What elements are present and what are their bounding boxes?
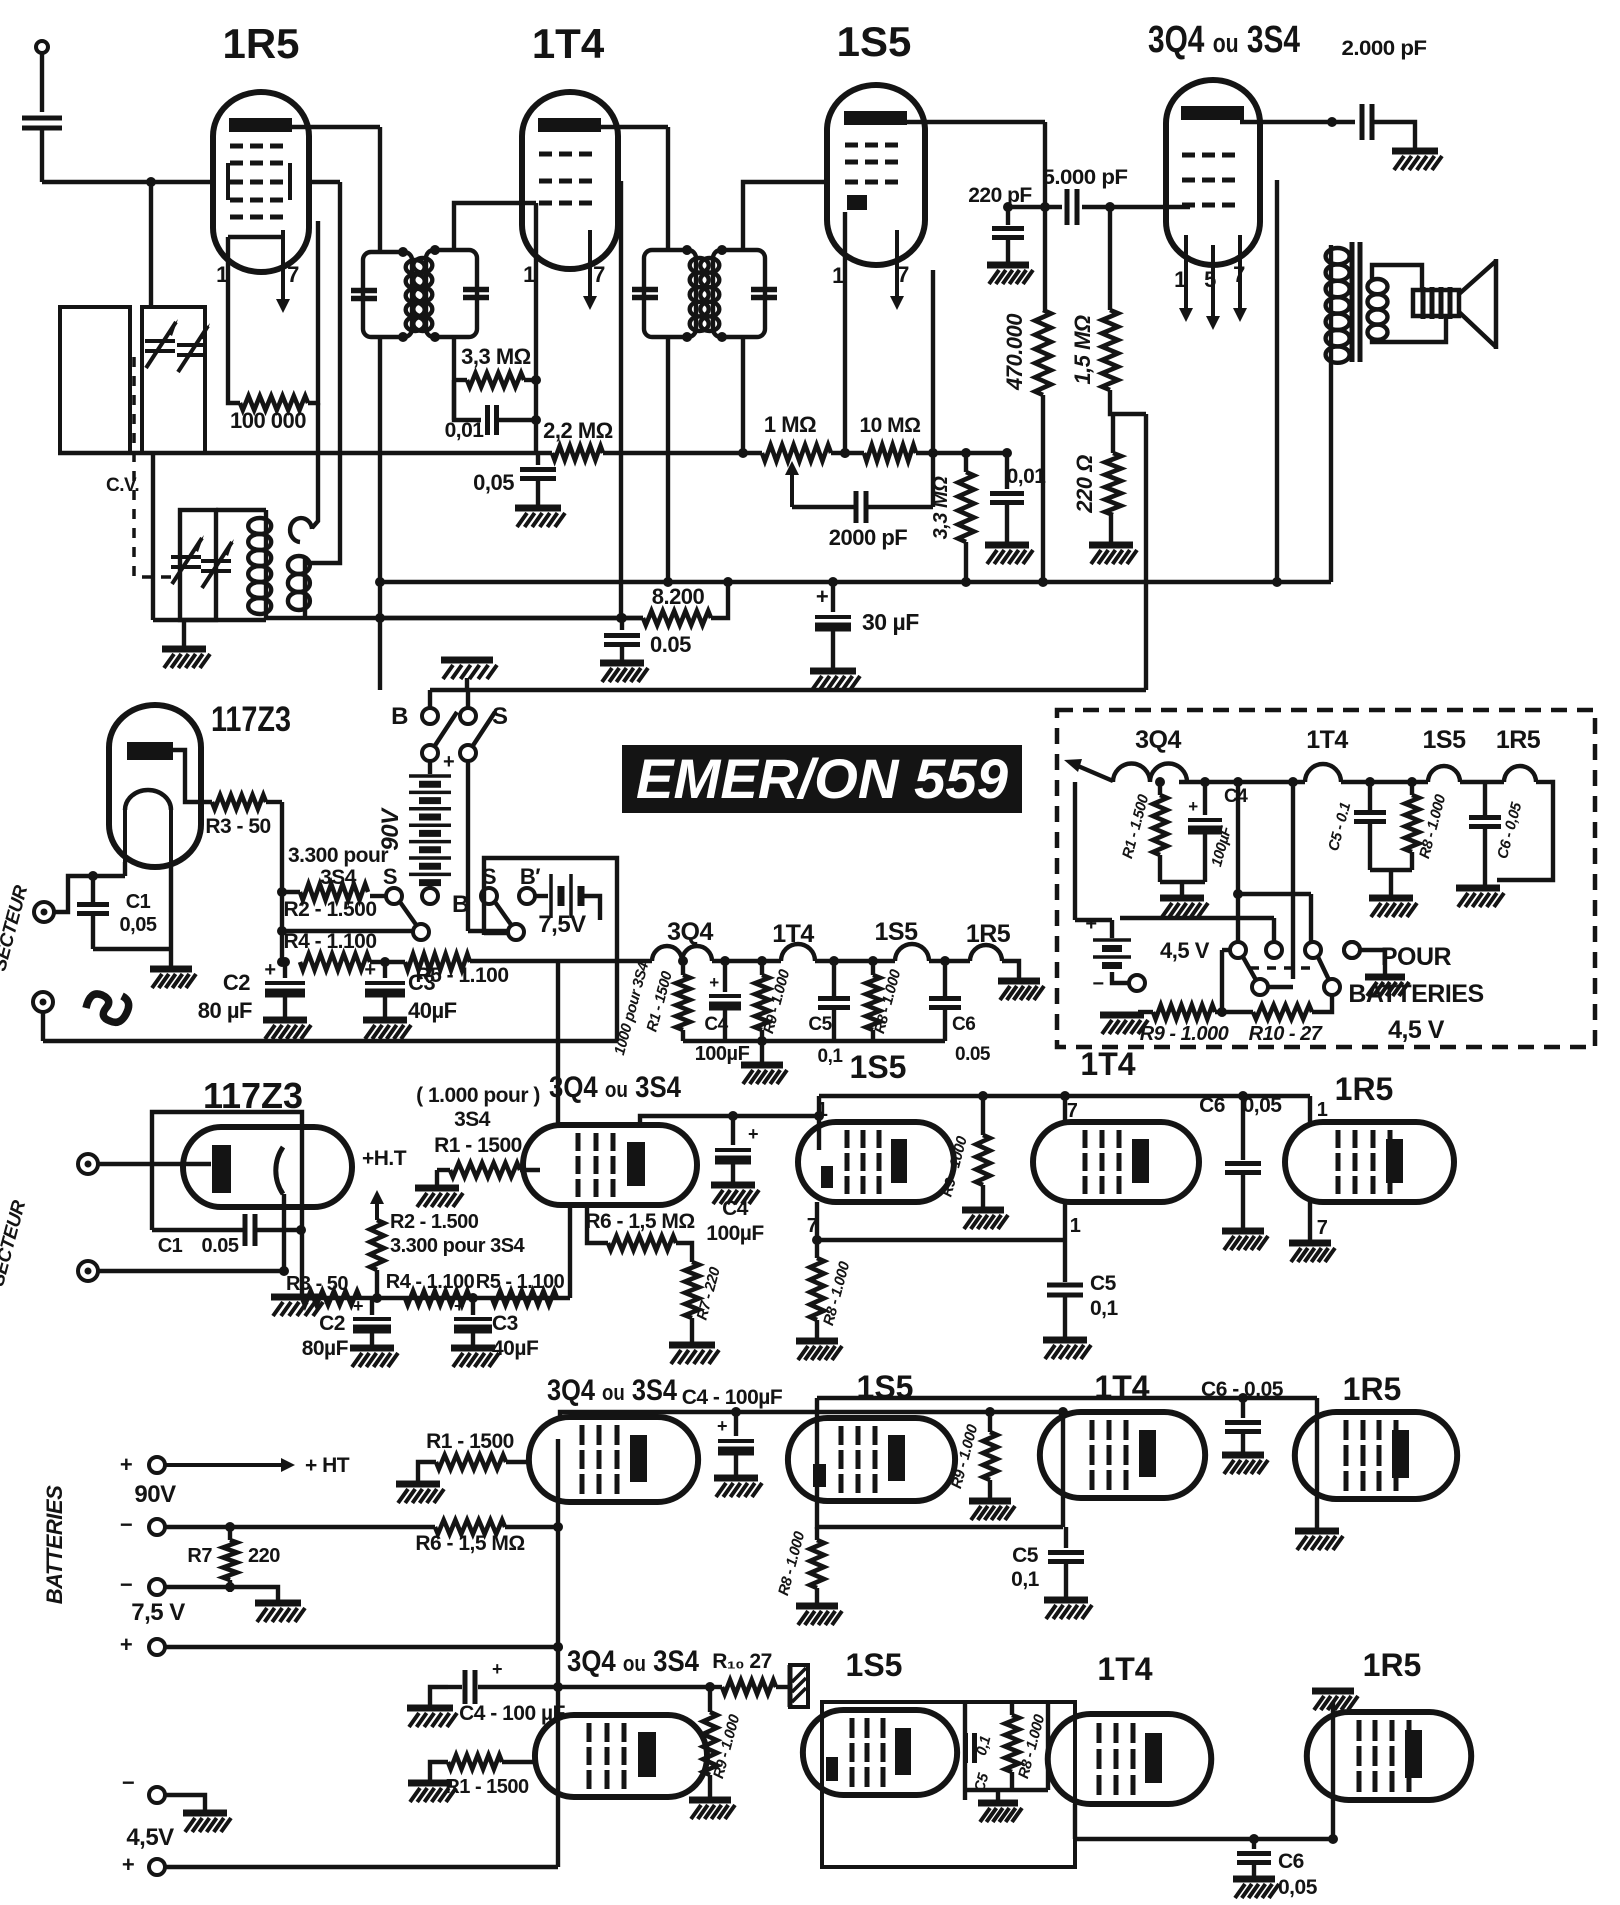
label R3-50: [205, 815, 270, 838]
capacitor C4 100uF (bat): [1188, 777, 1222, 882]
wire 1T4 pins (s3): [1060, 1091, 1070, 1240]
resistor R9-1.000 (s4): [983, 1407, 997, 1498]
svg-text:0,01: 0,01: [1007, 465, 1047, 488]
variable capacitor CV1b: [177, 323, 210, 372]
wire 117Z3 box (s3): [152, 1112, 302, 1298]
svg-text:7,5V: 7,5V: [538, 911, 586, 938]
label 1T4 (chain): [772, 920, 814, 948]
resistor 3,3 MOhm (1T4): [454, 373, 536, 420]
pin 7 label 1S5 (s3): [807, 1215, 818, 1237]
svg-text:C6: C6: [1199, 1094, 1225, 1117]
svg-text:R₁₀ 27: R₁₀ 27: [712, 1650, 772, 1673]
label 1T4 (bat): [1306, 726, 1348, 754]
svg-text:+: +: [1188, 797, 1198, 816]
wire T4 bottom: [738, 337, 748, 458]
svg-text:3,3 MΩ: 3,3 MΩ: [930, 476, 952, 540]
label 100 000: [230, 408, 306, 433]
pin 7 label 1R5 (s3): [1317, 1217, 1328, 1239]
wire 1S5 plate: [904, 120, 1045, 124]
svg-text:+: +: [748, 1124, 758, 1144]
label 7,5V: [131, 1599, 185, 1626]
resistor 2,2 MOhm: [552, 446, 603, 460]
wire 1T4 screen x621: [616, 181, 626, 623]
ground C1: [150, 969, 196, 988]
svg-text:1: 1: [1070, 1215, 1081, 1237]
ground R9 (s3): [962, 1210, 1008, 1229]
label R1 (s4): [426, 1430, 514, 1453]
wire 1R5 drop (s4): [1315, 1398, 1319, 1528]
label R5-1.100: [415, 964, 508, 987]
dashed line CV gang: [134, 357, 178, 577]
label R8 (chain): [871, 967, 905, 1035]
label R9-1000 (s5): [710, 1712, 744, 1780]
terminal +4,5V: [122, 1852, 558, 1877]
label C4 (s3): [706, 1197, 764, 1245]
label C2 80uF: [198, 970, 252, 1023]
svg-text:C3: C3: [408, 970, 435, 995]
svg-text:+H.T: +H.T: [362, 1147, 407, 1170]
battery minus terminal (bat): [1092, 972, 1145, 995]
label 1S5 (s3): [850, 1049, 907, 1085]
label R6 (s4): [415, 1532, 524, 1555]
ground R7 (s4): [255, 1603, 305, 1622]
svg-text:4,5V: 4,5V: [126, 1824, 174, 1851]
svg-text:C1: C1: [126, 891, 151, 913]
coil 1S5 filament: [815, 944, 929, 961]
terminal -90V: [120, 1512, 435, 1537]
svg-text:+: +: [264, 959, 275, 981]
svg-text:+: +: [1085, 913, 1096, 935]
tube 1R5 (s3): [1285, 1122, 1454, 1202]
label R5 (s3): [476, 1271, 565, 1293]
label 5.000pF: [1043, 166, 1129, 189]
wire x1045 drop: [1040, 122, 1050, 310]
wire 117Z3 lead right: [169, 862, 173, 966]
tube 1S5 guts (s4): [813, 1426, 905, 1493]
wire cap to x536: [498, 418, 536, 422]
svg-text:R4 - 1.100: R4 - 1.100: [386, 1271, 475, 1293]
capacitor C4 (chain): [709, 956, 741, 1041]
svg-text:1S5: 1S5: [875, 918, 919, 946]
label R2-1.500: [283, 898, 376, 921]
svg-text:( 1.000 pour ): ( 1.000 pour ): [416, 1084, 540, 1107]
wire 1S5 pin7 row (s3): [812, 1202, 1065, 1245]
label R7 220 (s4): [187, 1545, 280, 1567]
tube 3Q4 (s5): [535, 1715, 707, 1797]
resistor R5-1.100: [370, 954, 652, 970]
ground R1 (s4): [396, 1484, 444, 1503]
pin 7 arrow 1T4: [583, 230, 597, 310]
resistor R8 (chain): [866, 956, 880, 1041]
1S5 frame (s5): [822, 1702, 1075, 1867]
tube 1T4 guts (s5): [1099, 1723, 1162, 1795]
label R2 (s3): [390, 1211, 526, 1257]
label 1R5 (s4): [1343, 1371, 1402, 1407]
label 3Q4 (bat): [1135, 726, 1181, 754]
label R4 (s3): [386, 1271, 475, 1293]
svg-text:40µF: 40µF: [492, 1337, 539, 1360]
svg-text:POUR: POUR: [1381, 943, 1452, 971]
tube 1R5 (s5): [1307, 1712, 1471, 1800]
pin 7 label 3Q4: [1233, 262, 1245, 287]
capacitor 0,05 (8.2k): [604, 618, 640, 660]
svg-text:+: +: [122, 1852, 134, 1877]
IF transformer T4: [700, 245, 777, 342]
label C6 0,05 (s4): [1201, 1378, 1284, 1401]
ground C6 (s4): [1222, 1455, 1268, 1474]
terminal +7,5V: [120, 1632, 558, 1657]
tube 117Z3 guts (s3): [212, 1145, 283, 1194]
wire S2 to R2: [370, 894, 386, 898]
svg-text:220 pF: 220 pF: [968, 184, 1032, 207]
wire R6 (s3): [587, 1205, 608, 1243]
wire S drop: [468, 761, 510, 931]
resistor R1-1500 (chain): [676, 956, 690, 1041]
svg-text:1S5: 1S5: [850, 1049, 907, 1085]
bus y690: [430, 688, 1146, 692]
label 1S5 (chain): [875, 918, 919, 946]
svg-text:R7: R7: [187, 1545, 212, 1567]
label C6 0,05 (s5): [1278, 1850, 1318, 1899]
svg-text:+: +: [717, 1416, 727, 1436]
bus bottom right (s5): [1075, 1804, 1333, 1839]
label R6 (s3): [585, 1210, 694, 1233]
terminal +90V: [120, 1452, 350, 1477]
svg-text:R2 - 1.500: R2 - 1.500: [283, 898, 376, 921]
battery 7,5V: [535, 874, 600, 920]
ground R9 (s5): [689, 1800, 735, 1819]
1S5 frame (s4): [817, 1398, 1317, 1527]
svg-text:+: +: [816, 584, 828, 609]
wire 117Z3 filament lead (s3): [282, 1194, 286, 1271]
tube 1R5 guts (s5): [1359, 1720, 1422, 1792]
wire 3Q4 plate: [1240, 117, 1355, 127]
label SECTEUR (s3): [0, 1198, 30, 1289]
battery 90V bottom terminal: [422, 882, 469, 918]
capacitor 220pF: [992, 202, 1024, 262]
label 0,05 AVC: [473, 470, 514, 495]
ground R1 (s3): [415, 1188, 463, 1207]
label C3 (s3): [492, 1312, 539, 1360]
ground 0,05 (8.2k): [600, 663, 648, 682]
pin 7 label 1S5: [897, 262, 909, 287]
label C1 0,05 (s3): [158, 1235, 239, 1257]
label R1 1500 (s5): [445, 1776, 529, 1798]
tube 1S5: [827, 85, 925, 265]
svg-text:0,05: 0,05: [473, 470, 514, 495]
label C2 (s3): [302, 1312, 349, 1360]
tube 1S5 internals: [844, 111, 907, 210]
ground 0,01 (1S5): [985, 545, 1033, 564]
svg-text:−: −: [120, 1512, 132, 1537]
svg-text:1: 1: [832, 263, 844, 288]
svg-text:1,5 MΩ: 1,5 MΩ: [1070, 315, 1095, 385]
wire 3Q4 row (s5): [558, 1682, 715, 1692]
arrow +HT (s3): [362, 1147, 407, 1220]
svg-text:3.300 pour 3S4: 3.300 pour 3S4: [390, 1235, 526, 1257]
tube 3Q4 internals: [1181, 106, 1244, 205]
label 117Z3: [211, 700, 291, 739]
capacitor C2 80uF (s3): [353, 1296, 391, 1345]
capacitor C1 (s3): [152, 1214, 306, 1246]
tube 3Q4 guts (s4): [582, 1425, 647, 1494]
resistor R10-27 (bat): [1253, 995, 1332, 1019]
coil 3Q4 (bat): [1113, 764, 1187, 783]
label 90V: [134, 1481, 176, 1508]
svg-text:4,5 V: 4,5 V: [1388, 1016, 1445, 1044]
svg-text:−: −: [122, 1770, 134, 1795]
svg-text:+: +: [454, 1296, 464, 1316]
svg-text:R6 - 1,5 MΩ: R6 - 1,5 MΩ: [585, 1210, 694, 1233]
svg-text:2000 pF: 2000 pF: [829, 525, 907, 550]
label 3,3 MOhm (1S5): [930, 476, 952, 540]
label C1 0,05: [120, 891, 157, 936]
wire 1S5 pin7 drop: [931, 270, 935, 507]
svg-text:C1: C1: [158, 1235, 183, 1257]
tube 1S5 guts (s5): [826, 1718, 911, 1787]
label C3 40uF: [408, 970, 457, 1023]
capacitor 2000pF: [792, 491, 933, 523]
terminal -7,5V: [120, 1572, 230, 1597]
svg-text:1T4: 1T4: [1080, 1046, 1135, 1082]
capacitor C6-0.05 (bat): [1469, 782, 1553, 885]
ground C6 (s3): [1222, 1231, 1268, 1250]
ground R8 (s3): [796, 1341, 842, 1360]
tube 1S5 (s4): [788, 1418, 955, 1501]
tube 1S5 (s3): [798, 1122, 954, 1202]
ground switch (bat): [1365, 977, 1409, 996]
label 0,01 (1S5): [1007, 465, 1047, 488]
label 1R5 (s5): [1363, 1647, 1422, 1683]
node 30uF: [828, 577, 838, 587]
svg-text:C4 - 100µF: C4 - 100µF: [682, 1386, 783, 1409]
svg-text:C5: C5: [808, 1014, 832, 1035]
pin 1 label 1T4: [523, 262, 535, 287]
svg-text:R6 - 1,5 MΩ: R6 - 1,5 MΩ: [415, 1532, 524, 1555]
label POUR BATTERIES 4,5V: [1348, 943, 1483, 1044]
capacitor C5 0,1 (s3): [1047, 1240, 1083, 1337]
switch S2: [277, 864, 429, 940]
capacitor 30uF: [815, 582, 851, 668]
resistor R9-1000 (s3): [976, 1091, 990, 1207]
wire 1S5 pin1 (s3): [814, 1096, 824, 1150]
ground -4,5V: [183, 1813, 231, 1832]
wire 117Z3 lead left: [123, 862, 127, 876]
resistor 100 000: [240, 396, 308, 410]
svg-text:100 000: 100 000: [230, 408, 306, 433]
label 3Q4 (s3): [549, 1071, 681, 1104]
resistor R8-1.000 (s3): [810, 1240, 824, 1338]
svg-text:+: +: [353, 1296, 363, 1316]
label 1T4 (s4): [1094, 1369, 1149, 1405]
ground R8 (s4): [796, 1606, 842, 1625]
svg-text:90V: 90V: [134, 1481, 176, 1508]
wire coil bottoms y618: [266, 616, 643, 620]
output transformer primary: [1326, 245, 1350, 582]
svg-text:S: S: [492, 703, 508, 730]
ground R9 (bat): [1100, 1012, 1153, 1034]
ground C5 (s4): [1044, 1600, 1092, 1619]
svg-text:3S4: 3S4: [454, 1108, 491, 1131]
svg-text:0,1: 0,1: [1011, 1568, 1040, 1591]
capacitor C3 40uF (s3): [454, 1293, 492, 1345]
pin 7 label 1T4: [593, 262, 605, 287]
capacitor C5-0.1 (bat): [1354, 777, 1386, 870]
tube 1T4 (s4): [1040, 1412, 1205, 1498]
svg-text:R1 - 1500: R1 - 1500: [426, 1430, 514, 1453]
svg-text:R2 - 1.500: R2 - 1.500: [390, 1211, 479, 1233]
resistor R4-1.100: [277, 954, 370, 970]
tuning box CV1: [142, 307, 205, 453]
label R8-1.000 (bat): [1416, 792, 1450, 860]
potentiometer arrow: [785, 461, 799, 507]
secteur terminal 3: [78, 1154, 211, 1174]
terminal -4,5V: [122, 1770, 205, 1810]
label 0,01 (1T4): [445, 419, 485, 442]
node y618 x622: [617, 613, 627, 623]
svg-text:470.000: 470.000: [1002, 313, 1027, 391]
resistor R6-1,5M (s4): [435, 1520, 558, 1534]
svg-text:B: B: [452, 891, 469, 918]
capacitor C2 80uF: [264, 957, 305, 1017]
svg-text:+ HT: + HT: [305, 1454, 350, 1477]
svg-text:R3 - 50: R3 - 50: [205, 815, 270, 838]
label C6-0.05 (bat): [1494, 800, 1526, 861]
svg-text:R4 - 1.100: R4 - 1.100: [283, 930, 376, 953]
tube 1T4 (s5): [1048, 1714, 1212, 1804]
capacitor C6 (s5): [1237, 1834, 1271, 1876]
capacitor C6 0,05 (s3): [1225, 1091, 1261, 1228]
label SECTEUR: [0, 883, 32, 974]
svg-text:1S5: 1S5: [837, 18, 912, 65]
oscillator tuning box: [153, 453, 266, 620]
label C5-0.1 (bat): [1325, 801, 1354, 853]
svg-text:+: +: [492, 1659, 502, 1679]
label 1T4: [532, 20, 605, 67]
capacitor C5 (s4): [1048, 1527, 1084, 1597]
label 1R5 (s3): [1335, 1071, 1394, 1107]
wire 1T4 plate: [592, 125, 668, 129]
ground C6 (bat): [1456, 888, 1504, 907]
tube 1R5 (s4): [1295, 1412, 1457, 1499]
tube 1R5 guts (s4): [1346, 1420, 1409, 1491]
label 3,3 MOhm (1T4): [461, 344, 531, 369]
secteur terminal 2: [33, 992, 53, 1041]
svg-text:2.000 pF: 2.000 pF: [1342, 37, 1428, 60]
ground C3 (s3): [451, 1348, 499, 1367]
coil 1T4 (bat): [1179, 764, 1341, 782]
speaker: [1413, 259, 1496, 349]
svg-text:C6: C6: [952, 1014, 975, 1035]
tube 1R5 guts (s3): [1338, 1130, 1403, 1194]
wire C4 gnd (s5): [430, 1687, 448, 1705]
ground R1/C4 (bat): [1160, 898, 1208, 917]
resistor R4-1.100 (s3): [405, 1291, 470, 1305]
label R7-220 (s3): [694, 1265, 725, 1322]
svg-text:3S4: 3S4: [320, 866, 357, 889]
wire x668 drop: [663, 127, 673, 587]
wire secteur bottom: [43, 961, 617, 1041]
svg-text:C3: C3: [492, 1312, 518, 1335]
antenna coil box: [60, 307, 130, 453]
svg-text:+: +: [120, 1632, 132, 1657]
resistor R6-1,5M (s3): [608, 1236, 692, 1262]
capacitor 0,01 (1T4 grid): [488, 405, 497, 435]
switch quad (bat): [1120, 777, 1360, 1011]
svg-text:1S5: 1S5: [846, 1647, 903, 1683]
label 3Q4 (chain): [667, 918, 713, 946]
capacitor 2.000pF: [1362, 104, 1372, 140]
oscillator tickler coil: [288, 518, 312, 618]
svg-text:3Q4: 3Q4: [1135, 726, 1181, 754]
capacitor C6 (s4): [1225, 1393, 1261, 1452]
wire 1R5 filament loop: [228, 221, 318, 403]
ground 1R5 (s3): [1289, 1243, 1335, 1262]
wire 1R5 drop (s5): [1328, 1702, 1338, 1844]
label 7,5V: [538, 911, 586, 938]
svg-text:117Z3: 117Z3: [211, 700, 291, 739]
svg-text:220: 220: [248, 1545, 280, 1567]
resistor R7-220 (s3): [685, 1262, 699, 1342]
tube 117Z3 (s3): [183, 1127, 352, 1207]
svg-text:7: 7: [287, 262, 299, 287]
secteur terminal 4: [78, 1261, 289, 1281]
svg-text:40µF: 40µF: [408, 998, 457, 1023]
label R4-1.100: [283, 930, 376, 953]
label 1S5 (s5): [846, 1647, 903, 1683]
svg-text:BATTERIES: BATTERIES: [1348, 980, 1483, 1008]
ground C4 (s5): [407, 1708, 457, 1727]
tube 3Q4 (s4): [529, 1417, 698, 1502]
pin 1 label 1S5: [832, 263, 844, 288]
wire filament feed: [556, 961, 560, 1127]
capacitor C5 (chain): [818, 956, 850, 1041]
svg-text:C6: C6: [1278, 1850, 1304, 1873]
svg-text:4,5 V: 4,5 V: [1160, 938, 1210, 963]
wire 1R5 pin1 (s3): [1308, 1096, 1312, 1122]
variable capacitor CV2a: [171, 535, 204, 584]
wire x151 down to tuning box: [149, 182, 153, 307]
label 1000 pour 3S4: [611, 960, 652, 1057]
wire 1R5 pin7 (s3): [1308, 1202, 1312, 1240]
tube 1T4 guts (s4): [1092, 1420, 1156, 1490]
pin 5 label 3Q4: [1204, 267, 1216, 292]
label 2000pF: [829, 525, 907, 550]
label C6 0,05 (s3): [1199, 1094, 1282, 1117]
tube 3Q4 (s3): [523, 1125, 697, 1205]
pin arrows 3Q4: [1179, 235, 1247, 330]
label 3.300 pour 3S4: [288, 844, 388, 889]
label 3Q4 (s5): [567, 1645, 699, 1678]
plug squiggle: [86, 994, 129, 1022]
ground 220pF: [987, 265, 1033, 284]
label 0,05 (8.2k): [650, 632, 691, 657]
output transformer secondary: [1368, 265, 1447, 342]
IF transformer T3: [632, 245, 709, 342]
wire 1R5 grid stub right: [308, 180, 340, 184]
wire R7 gnd (s4): [225, 1582, 278, 1600]
svg-text:80µF: 80µF: [302, 1337, 349, 1360]
label 1 MOhm: [764, 412, 816, 437]
label R8 (s4): [775, 1529, 809, 1597]
svg-text:1T4: 1T4: [1094, 1369, 1149, 1405]
wire x380 B+ drop: [375, 127, 385, 690]
ground 2.000pF: [1392, 151, 1442, 170]
resistor 470.000: [1035, 310, 1051, 587]
ground R1 (s5): [408, 1783, 456, 1802]
svg-text:+: +: [120, 1452, 132, 1477]
tube 1R5: [213, 92, 309, 272]
